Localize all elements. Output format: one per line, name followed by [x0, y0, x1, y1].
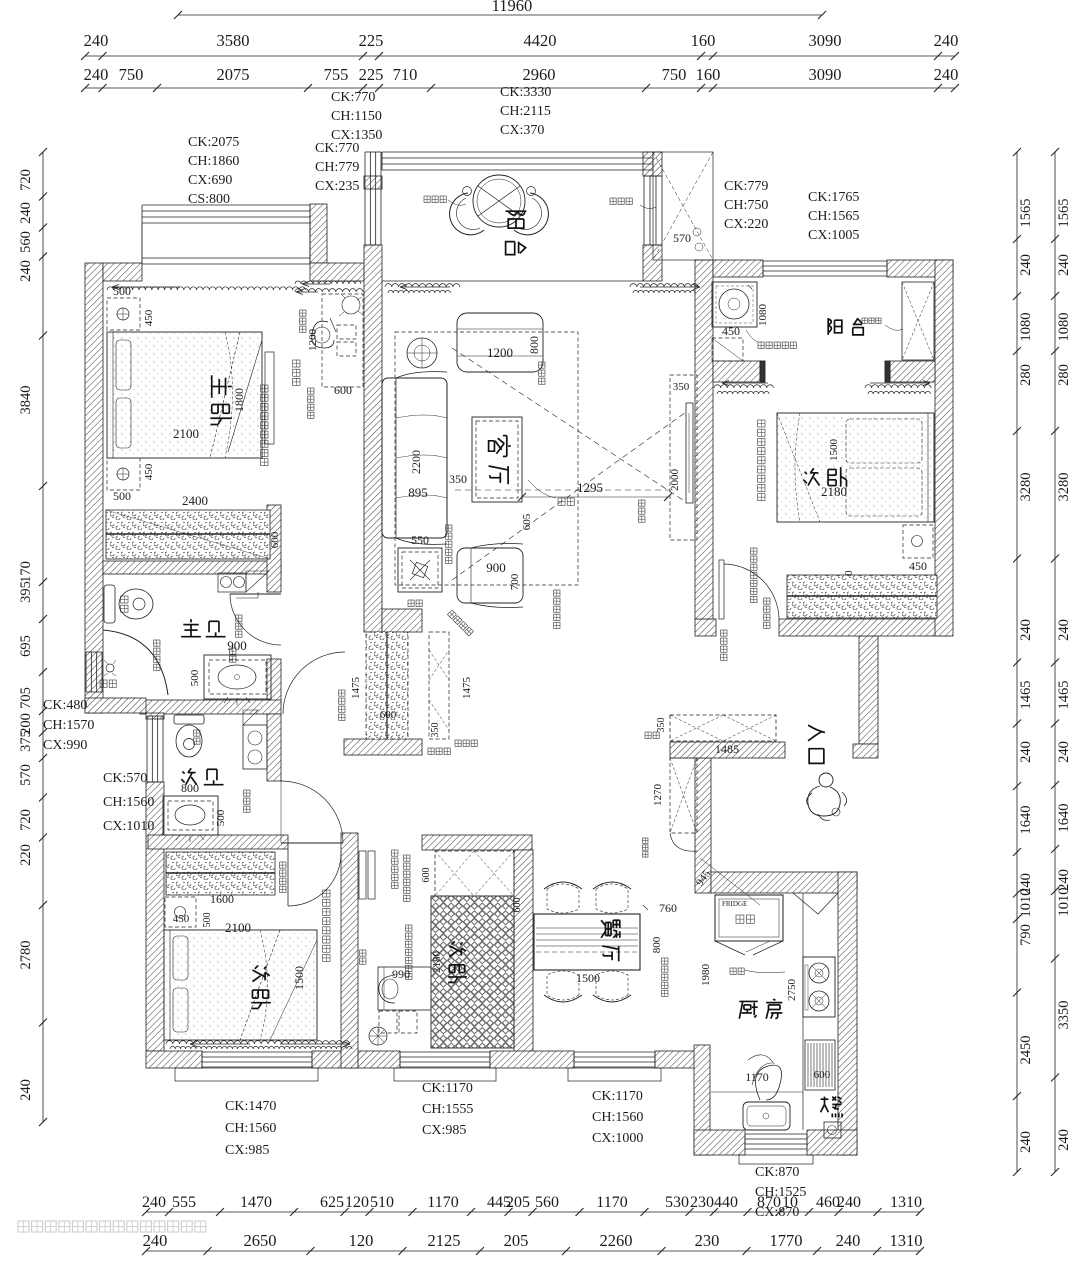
svg-text:710: 710	[393, 65, 418, 84]
svg-text:500: 500	[113, 284, 131, 298]
svg-text:1500: 1500	[828, 439, 840, 462]
svg-text:3090: 3090	[809, 65, 842, 84]
svg-text:CX:985: CX:985	[225, 1143, 269, 1158]
svg-text:CX:1010: CX:1010	[103, 819, 154, 834]
svg-text:1170: 1170	[745, 1070, 769, 1084]
svg-text:450: 450	[173, 913, 190, 925]
svg-text:CH:1570: CH:1570	[43, 718, 94, 733]
svg-text:500: 500	[113, 489, 131, 503]
svg-text:CK:3330: CK:3330	[500, 85, 551, 100]
svg-text:CK:1170: CK:1170	[592, 1089, 643, 1104]
svg-text:695: 695	[18, 635, 34, 657]
svg-text:240: 240	[1056, 1129, 1072, 1151]
svg-text:CX:235: CX:235	[315, 179, 359, 194]
svg-text:1500: 1500	[292, 966, 306, 990]
svg-text:240: 240	[836, 1231, 861, 1250]
svg-text:2200: 2200	[409, 450, 423, 474]
svg-text:350: 350	[656, 718, 667, 733]
svg-text:2960: 2960	[523, 65, 556, 84]
svg-text:120: 120	[349, 1231, 374, 1250]
svg-text:1770: 1770	[770, 1231, 803, 1250]
svg-text:555: 555	[172, 1194, 196, 1211]
svg-text:560: 560	[18, 231, 34, 253]
svg-text:CH:2115: CH:2115	[500, 104, 551, 119]
svg-text:2650: 2650	[244, 1231, 277, 1250]
svg-text:600: 600	[334, 383, 352, 397]
svg-text:350: 350	[673, 381, 690, 393]
svg-text:3280: 3280	[1056, 473, 1072, 502]
svg-text:CX:370: CX:370	[500, 123, 544, 138]
svg-text:CH:1565: CH:1565	[808, 209, 859, 224]
svg-text:240: 240	[143, 1231, 168, 1250]
svg-text:4420: 4420	[524, 31, 557, 50]
svg-text:1600: 1600	[210, 892, 234, 906]
svg-text:240: 240	[1056, 619, 1072, 641]
svg-text:2180: 2180	[821, 484, 847, 499]
svg-text:1200: 1200	[487, 345, 513, 360]
svg-text:895: 895	[408, 485, 428, 500]
svg-text:11960: 11960	[492, 0, 533, 15]
svg-text:170: 170	[18, 561, 34, 583]
svg-text:395: 395	[18, 581, 34, 603]
svg-text:CK:480: CK:480	[43, 698, 87, 713]
svg-text:600: 600	[269, 531, 281, 548]
svg-text:600: 600	[512, 898, 523, 913]
svg-text:800: 800	[651, 936, 663, 953]
svg-text:2180: 2180	[431, 951, 443, 974]
svg-text:CK:870: CK:870	[755, 1165, 799, 1180]
svg-text:CH:1860: CH:1860	[188, 154, 239, 169]
svg-text:225: 225	[359, 65, 384, 84]
svg-text:1310: 1310	[890, 1231, 923, 1250]
svg-text:240: 240	[1056, 254, 1072, 276]
svg-text:230: 230	[695, 1231, 720, 1250]
svg-text:240: 240	[934, 65, 959, 84]
svg-text:450: 450	[722, 324, 740, 338]
svg-text:205: 205	[504, 1231, 529, 1250]
svg-text:530: 530	[665, 1194, 689, 1211]
svg-text:240: 240	[1018, 741, 1034, 763]
svg-text:CX:690: CX:690	[188, 173, 232, 188]
svg-text:1170: 1170	[427, 1194, 458, 1211]
svg-text:1270: 1270	[652, 784, 664, 807]
svg-text:600: 600	[421, 868, 432, 883]
svg-text:560: 560	[535, 1194, 559, 1211]
svg-text:605: 605	[521, 513, 533, 530]
svg-text:CH:779: CH:779	[315, 160, 359, 175]
svg-text:240: 240	[1056, 741, 1072, 763]
svg-text:1465: 1465	[1056, 681, 1072, 710]
svg-text:2100: 2100	[173, 426, 199, 441]
svg-text:CH:1560: CH:1560	[225, 1121, 276, 1136]
svg-text:160: 160	[696, 65, 721, 84]
svg-text:225: 225	[359, 31, 384, 50]
svg-text:CS:800: CS:800	[188, 192, 230, 207]
svg-text:570: 570	[673, 231, 691, 245]
svg-text:350: 350	[449, 472, 467, 486]
svg-text:3840: 3840	[18, 386, 34, 415]
svg-text:240: 240	[84, 31, 109, 50]
svg-text:1800: 1800	[232, 388, 246, 412]
svg-text:240: 240	[84, 65, 109, 84]
svg-text:240: 240	[1018, 1131, 1034, 1153]
svg-text:3580: 3580	[217, 31, 250, 50]
svg-text:CK:779: CK:779	[724, 179, 768, 194]
svg-text:3350: 3350	[1056, 1001, 1072, 1030]
svg-text:CX:1005: CX:1005	[808, 228, 859, 243]
svg-text:CK:770: CK:770	[331, 90, 375, 105]
svg-text:2100: 2100	[225, 920, 251, 935]
svg-text:570: 570	[18, 764, 34, 786]
svg-text:CX:985: CX:985	[422, 1123, 466, 1138]
svg-text:705: 705	[18, 687, 34, 709]
svg-text:160: 160	[691, 31, 716, 50]
svg-text:1200: 1200	[307, 329, 319, 352]
svg-text:3090: 3090	[809, 31, 842, 50]
svg-text:1010: 1010	[1018, 889, 1034, 918]
svg-text:2075: 2075	[217, 65, 250, 84]
svg-text:280: 280	[1018, 364, 1034, 386]
svg-text:500: 500	[202, 913, 213, 928]
svg-text:2450: 2450	[1018, 1036, 1034, 1065]
svg-text:625: 625	[320, 1194, 344, 1211]
svg-text:220: 220	[18, 844, 34, 866]
svg-text:500: 500	[189, 669, 201, 686]
svg-text:1475: 1475	[461, 677, 473, 700]
svg-text:450: 450	[143, 463, 155, 480]
svg-text:1475: 1475	[350, 677, 362, 700]
svg-text:240: 240	[18, 260, 34, 282]
svg-text:2400: 2400	[182, 493, 208, 508]
svg-text:450: 450	[143, 309, 155, 326]
svg-text:1080: 1080	[1018, 313, 1034, 342]
svg-text:1565: 1565	[1018, 199, 1034, 228]
svg-text:CX:990: CX:990	[43, 738, 87, 753]
svg-text:1310: 1310	[890, 1194, 922, 1211]
svg-text:205: 205	[506, 1194, 530, 1211]
svg-text:CX:870: CX:870	[755, 1205, 799, 1220]
svg-text:280: 280	[1056, 364, 1072, 386]
svg-text:1080: 1080	[757, 304, 769, 327]
svg-text:CK:1765: CK:1765	[808, 190, 859, 205]
svg-text:CH:1525: CH:1525	[755, 1185, 806, 1200]
svg-text:CH:750: CH:750	[724, 198, 768, 213]
svg-text:CH:1150: CH:1150	[331, 109, 382, 124]
svg-text:2000: 2000	[669, 469, 681, 492]
svg-text:760: 760	[659, 901, 677, 915]
svg-text:240: 240	[837, 1194, 861, 1211]
svg-text:1465: 1465	[1018, 681, 1034, 710]
svg-text:240: 240	[934, 31, 959, 50]
svg-text:2125: 2125	[428, 1231, 461, 1250]
svg-text:1010: 1010	[1056, 888, 1072, 917]
svg-text:1470: 1470	[240, 1194, 272, 1211]
svg-text:CX:1000: CX:1000	[592, 1131, 643, 1146]
svg-text:790: 790	[1018, 924, 1034, 946]
svg-text:CK:770: CK:770	[315, 141, 359, 156]
svg-text:CH:1560: CH:1560	[103, 795, 154, 810]
svg-text:1295: 1295	[577, 480, 603, 495]
svg-text:CK:570: CK:570	[103, 771, 147, 786]
svg-text:FRIDGE: FRIDGE	[722, 900, 747, 908]
svg-text:900: 900	[486, 560, 506, 575]
svg-text:240: 240	[1018, 254, 1034, 276]
svg-text:1565: 1565	[1056, 199, 1072, 228]
svg-text:720: 720	[18, 169, 34, 191]
svg-text:1640: 1640	[1056, 804, 1072, 833]
svg-text:800: 800	[527, 336, 541, 354]
svg-text:240: 240	[142, 1194, 166, 1211]
svg-text:550: 550	[411, 533, 429, 547]
svg-text:1485: 1485	[715, 742, 739, 756]
svg-text:375: 375	[18, 730, 34, 752]
svg-text:990: 990	[392, 967, 410, 981]
svg-text:750: 750	[662, 65, 687, 84]
svg-text:750: 750	[119, 65, 144, 84]
svg-text:CK:1470: CK:1470	[225, 1099, 276, 1114]
svg-text:240: 240	[18, 202, 34, 224]
svg-text:755: 755	[324, 65, 349, 84]
svg-text:2750: 2750	[786, 979, 798, 1002]
svg-text:CX:220: CX:220	[724, 217, 768, 232]
svg-text:1500: 1500	[576, 971, 600, 985]
svg-text:720: 720	[18, 809, 34, 831]
svg-text:CH:1560: CH:1560	[592, 1110, 643, 1125]
svg-text:CK:1170: CK:1170	[422, 1081, 473, 1096]
svg-text:240: 240	[1018, 619, 1034, 641]
svg-text:3280: 3280	[1018, 473, 1034, 502]
svg-text:450: 450	[909, 559, 927, 573]
svg-text:1640: 1640	[1018, 806, 1034, 835]
svg-text:CH:1555: CH:1555	[422, 1102, 473, 1117]
svg-text:2260: 2260	[600, 1231, 633, 1250]
svg-text:600: 600	[814, 1069, 831, 1081]
svg-text:600: 600	[380, 709, 397, 721]
svg-text:CK:2075: CK:2075	[188, 135, 239, 150]
svg-text:1170: 1170	[596, 1194, 627, 1211]
svg-text:1980: 1980	[700, 964, 712, 987]
svg-text:2780: 2780	[18, 941, 34, 970]
svg-text:240: 240	[18, 1079, 34, 1101]
svg-text:900: 900	[227, 638, 247, 653]
svg-text:700: 700	[509, 573, 521, 590]
svg-text:500: 500	[215, 809, 227, 826]
svg-text:1080: 1080	[1056, 313, 1072, 342]
svg-text:350: 350	[430, 723, 441, 738]
